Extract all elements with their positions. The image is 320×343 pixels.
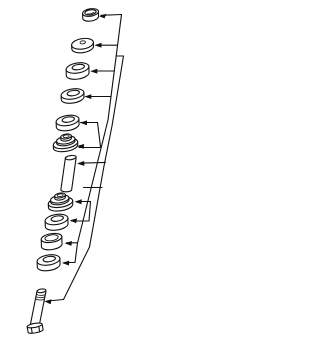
arrow to sleeve <box>77 161 84 166</box>
sleeve part7 <box>61 155 77 192</box>
washer part4 <box>60 87 85 105</box>
nut part1 <box>81 8 99 23</box>
arrow to washer2 <box>95 43 102 48</box>
wire bracket 8-9 vertical <box>89 202 91 222</box>
arrow to bushing6 <box>77 144 84 149</box>
arrow to washer4 <box>84 94 91 99</box>
wire leader part3 <box>92 70 114 72</box>
wire leader part1 <box>101 14 122 17</box>
washer part3 thick <box>65 61 91 81</box>
bushing part8 <box>46 191 73 212</box>
wire leader to bolt horizontal <box>48 300 64 302</box>
wire bracket 10-11 vertical <box>75 243 78 263</box>
wire jog branch <box>116 55 123 57</box>
arrow to washer5 <box>80 120 87 125</box>
wire leader part8 <box>77 201 91 203</box>
washer part11 <box>36 253 62 272</box>
washer part9 <box>44 213 70 232</box>
wire leader part6 <box>79 147 101 149</box>
wire leader part11 <box>64 262 75 264</box>
wire leader spine right <box>90 56 124 247</box>
wire tick mid <box>84 187 103 189</box>
wire leader spine left upper <box>108 15 122 121</box>
wire leader part5 <box>81 122 98 124</box>
wire leader part9 <box>72 220 90 222</box>
arrow to washer9 <box>70 218 77 223</box>
wire leader part2 <box>96 44 117 46</box>
wire leader spine left lower <box>78 120 109 243</box>
wire bracket 5-6 vertical <box>98 123 101 148</box>
wire leader part4 <box>86 96 110 98</box>
washer part5 <box>55 114 81 133</box>
cup part10 <box>40 232 64 251</box>
arrow to washer11 <box>62 261 69 266</box>
arrowheads <box>44 14 106 305</box>
wire leader to bolt steep <box>64 247 90 300</box>
arrow to bushing8 <box>75 199 82 204</box>
wire leader part10 <box>67 242 78 244</box>
arrow to nut <box>99 14 106 19</box>
arrow to bolt <box>44 299 51 304</box>
wire leader sleeve <box>79 161 106 164</box>
bushing part6 <box>52 132 79 153</box>
bolt part12 <box>27 288 46 334</box>
washer part2 <box>70 37 94 54</box>
arrow to cup10 <box>65 241 72 246</box>
arrow to washer3 <box>90 69 97 74</box>
